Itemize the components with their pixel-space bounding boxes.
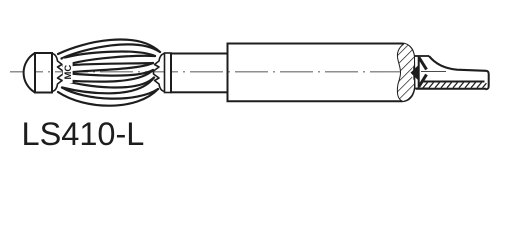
shaft	[171, 54, 228, 93]
MC label background	[63, 59, 73, 84]
lamella wire 8	[64, 70, 154, 82]
funnel chamfer wedge bottom	[419, 75, 427, 87]
funnel cone section triangle	[411, 65, 419, 81]
front cylinder	[35, 53, 52, 93]
lamella wire 12	[58, 89, 158, 106]
ball nose tip	[24, 53, 35, 93]
svg-text:MC: MC	[63, 65, 74, 80]
center line	[10, 71, 406, 73]
tail band bottom	[416, 88, 486, 90]
svg-text:LS410-L: LS410-L	[22, 116, 145, 149]
ball flat vertical	[34, 53, 36, 93]
lamella wire 3	[62, 52, 156, 59]
bore line	[421, 71, 446, 73]
funnel mouth vertical	[418, 56, 420, 89]
tail band hatch	[423, 82, 486, 87]
funnel ledges	[414, 56, 429, 89]
lamella wire 2	[62, 44, 161, 58]
section break line	[397, 44, 404, 101]
lamella wire 5	[64, 63, 154, 66]
tail top profile curve	[429, 56, 486, 71]
lamella wire 9	[64, 78, 155, 88]
lamella wire 10	[62, 78, 154, 94]
tail band top	[421, 81, 485, 83]
right collar ring	[165, 53, 172, 93]
lamella wire 4	[64, 56, 156, 66]
lamella wire 7	[64, 70, 153, 76]
lamella wire 1	[58, 40, 160, 54]
right crown collar	[154, 54, 165, 92]
section hatch crescent	[397, 44, 414, 101]
lamella wire 11	[62, 88, 158, 99]
lamella wire 6	[64, 63, 153, 73]
lamella basket	[58, 40, 160, 106]
left crown collar	[53, 54, 64, 92]
tail right edge	[486, 71, 489, 90]
body (insulator sleeve)	[228, 44, 415, 102]
funnel chamfer wedge top	[419, 58, 427, 70]
